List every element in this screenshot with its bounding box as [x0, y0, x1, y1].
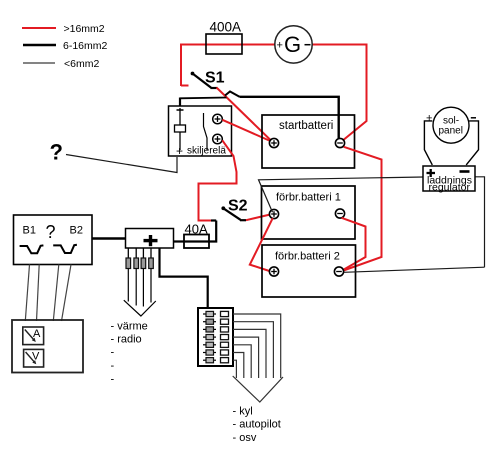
terminal forbr1 -	[335, 209, 344, 218]
terminal startbatteri -	[335, 138, 344, 147]
terminal forbr1 +	[269, 209, 278, 218]
wire black: S2 left contact down through 40A fuse to plus block	[211, 219, 216, 221]
svg-text:<6mm2: <6mm2	[64, 58, 99, 70]
svg-text:-: -	[111, 360, 115, 372]
wire out row 6	[233, 353, 244, 379]
wire out row 7	[233, 360, 236, 378]
wires from block to small fuses	[127, 248, 129, 258]
wire annotation line from ? to skiljerela +	[66, 155, 177, 173]
svg-text:-: -	[111, 347, 115, 359]
ammeter A	[23, 327, 44, 345]
fuse small 3	[141, 258, 146, 269]
svg-text:-: -	[111, 374, 115, 386]
svg-text:?: ?	[46, 222, 56, 242]
legend thin wire sample <6mm2	[23, 62, 55, 64]
fuse row 6	[203, 352, 216, 354]
wire black: bump to corner above startbatteri minus	[240, 97, 339, 139]
relay coil branch	[179, 108, 181, 125]
switch S1 blade and tip dot	[191, 72, 195, 76]
terminal skiljerela upper +	[213, 114, 223, 124]
svg-text:+: +	[277, 40, 283, 52]
battery forbr.batteri 1	[262, 186, 356, 239]
svg-text:skiljerelä: skiljerelä	[187, 146, 226, 157]
terminal skiljerela lower +	[213, 134, 223, 144]
fuse F1 400A	[206, 34, 242, 54]
switch element B1	[20, 245, 44, 253]
terminal forbr2 +	[269, 267, 278, 276]
fuse F2 40A	[184, 235, 209, 249]
wire out row 5	[233, 345, 251, 378]
wire red: generator - to right, down to startbatteri minus	[311, 45, 367, 141]
svg-text:S1: S1	[205, 70, 225, 87]
svg-text:6-16mm2: 6-16mm2	[63, 40, 108, 52]
fuse small 1	[126, 258, 131, 269]
arrow consumers right	[233, 376, 283, 402]
svg-text:B2: B2	[70, 225, 83, 237]
wire thin meter leads from B1B2 down to meter box	[25, 265, 29, 322]
legend red wire sample >16mm2	[22, 27, 56, 29]
wire red: S2 right contact to forbr.batteri 1 plus	[246, 215, 270, 221]
arrow consumers left	[124, 300, 156, 316]
svg-text:panel: panel	[439, 126, 463, 137]
svg-text:- autopilot: - autopilot	[233, 419, 281, 431]
wire red: forbr1 minus to forbr2 minus	[342, 218, 366, 270]
wire red: skiljerela upper terminal to startbatteri plus	[222, 120, 270, 141]
svg-text:- värme: - värme	[111, 321, 148, 333]
wire out row 4	[233, 337, 259, 378]
switch box B1 B2	[14, 215, 93, 265]
fuse row 5	[203, 344, 216, 346]
battery forbr.batteri 2	[262, 245, 356, 297]
legend black wire sample 6-16mm2	[23, 44, 56, 46]
meter box	[12, 320, 83, 373]
generator G	[275, 26, 312, 63]
svg-text:startbatteri: startbatteri	[279, 120, 333, 132]
wire thin: regulator - down right side	[475, 177, 485, 267]
svg-text:>16mm2: >16mm2	[64, 23, 105, 35]
svg-text:?: ?	[50, 140, 63, 165]
fuse small 4	[149, 258, 154, 269]
wire red: skiljerela lower terminal down and around to S2 left contact	[199, 140, 237, 220]
regulator U2 laddningsregulator	[423, 166, 475, 191]
svg-text:400A: 400A	[210, 20, 242, 35]
svg-text:B1: B1	[23, 225, 36, 237]
fuse small 2	[134, 258, 139, 269]
startbatteri battery	[262, 115, 355, 168]
svg-text:+: +	[176, 144, 183, 158]
voltmeter V	[24, 349, 44, 367]
svg-text:G: G	[284, 32, 301, 57]
svg-text:förbr.batteri 2: förbr.batteri 2	[275, 251, 340, 263]
svg-text:- radio: - radio	[111, 334, 142, 346]
switch element B2	[53, 245, 77, 253]
svg-text:40A: 40A	[185, 222, 208, 237]
relay U1 skiljerela box	[169, 106, 232, 156]
wire red: S1 left contact stub	[181, 85, 189, 87]
solar panel circle	[433, 107, 469, 143]
svg-text:+: +	[426, 113, 432, 125]
fuse row 4	[203, 336, 216, 338]
wire out row 1	[233, 314, 281, 378]
wire red: startbatteri minus down to forbr.batteri 2 minus	[344, 147, 382, 271]
svg-text:regulator: regulator	[429, 182, 471, 194]
wire red: S1 left contact up through 400A fuse to generator +	[181, 45, 276, 87]
distribution block +	[126, 229, 174, 249]
fuse row 2	[203, 321, 216, 323]
svg-text:S2: S2	[228, 198, 248, 215]
wire thin: forbr2 minus right to regulator - riser	[344, 267, 485, 272]
wire red: S1 right contact diagonal to startbatteri plus	[217, 88, 272, 141]
fuse panel box	[198, 308, 233, 366]
wire black: stub down into skiljerela box top	[179, 98, 181, 107]
wire black: B1B2 box to plus block	[92, 237, 126, 240]
wire thin: regulator + to forbr1 plus	[259, 177, 424, 212]
fuse row 3	[203, 328, 216, 330]
terminal forbr2 -	[334, 267, 343, 276]
terminal startbatteri +	[269, 138, 278, 147]
fuse row 1	[203, 313, 216, 315]
wire black: skiljerela top to switch bump	[180, 97, 227, 100]
wire red: forbr1 plus to forbr2 plus	[250, 218, 273, 271]
switch bump blade on black wire	[225, 92, 240, 97]
svg-text:förbr.batteri 1: förbr.batteri 1	[276, 192, 341, 204]
fuse row 7	[203, 359, 216, 361]
svg-text:- osv: - osv	[233, 432, 257, 444]
wires from fuses down into arrow	[127, 269, 129, 302]
solpanel mount shield	[424, 121, 432, 165]
wire out row 2	[233, 322, 273, 378]
svg-text:- kyl: - kyl	[233, 406, 253, 418]
wire out row 3	[233, 329, 266, 378]
wire black: block fifth output to fuse panel	[160, 248, 208, 308]
relay internal switch	[204, 113, 208, 150]
